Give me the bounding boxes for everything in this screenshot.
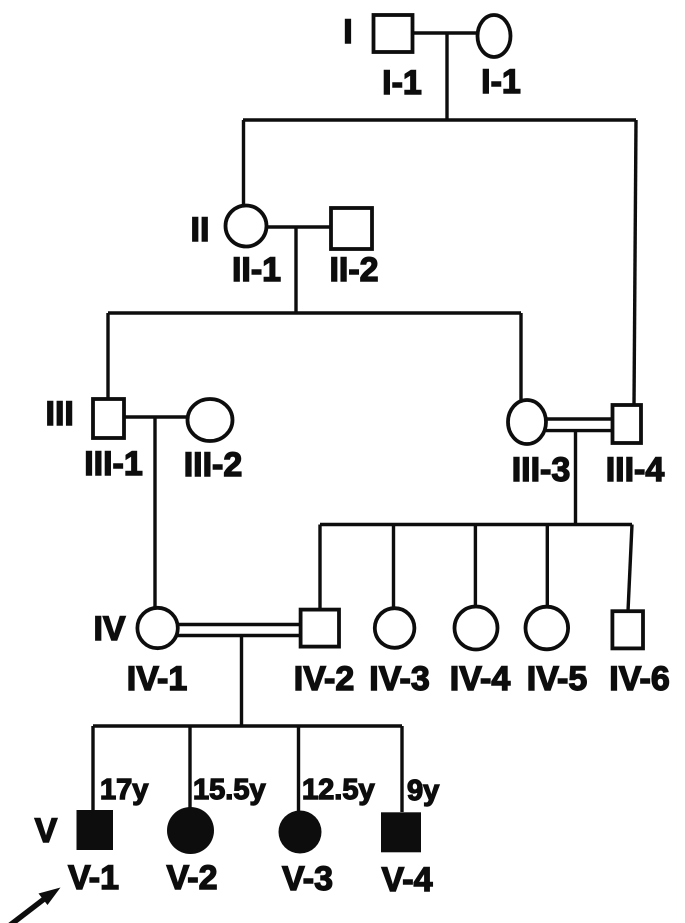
svg-text:III-2: III-2: [184, 446, 243, 484]
svg-text:V-3: V-3: [282, 860, 333, 898]
individual V-3 affected female filled circle: [279, 811, 322, 854]
wire drop to V-3: [297, 726, 300, 811]
wire sibship line generation V: [93, 724, 402, 727]
svg-text:V-2: V-2: [166, 859, 217, 897]
svg-text:IV-5: IV-5: [527, 660, 587, 698]
wire sibship line generation III: [108, 311, 521, 314]
svg-text:IV-3: IV-3: [369, 660, 429, 698]
svg-text:V: V: [35, 812, 58, 850]
wire consanguineous double line III lower: [546, 429, 613, 432]
wire descent from couple III right: [574, 431, 577, 525]
svg-text:9y: 9y: [407, 775, 439, 807]
wire drop to V-2: [188, 726, 191, 808]
wire consanguineous double line IV lower: [176, 634, 301, 637]
wire long drop to III-4: [634, 120, 636, 406]
individual IV-3 female circle: [375, 608, 415, 648]
svg-text:II-1: II-1: [232, 251, 281, 289]
individual IV-5 female circle: [526, 607, 569, 650]
wire descent from couple III left: [153, 417, 156, 608]
individual IV-6 male square: [612, 611, 643, 648]
svg-text:III-4: III-4: [606, 451, 665, 489]
svg-text:II-2: II-2: [329, 251, 378, 289]
wire drop to IV-2: [318, 525, 321, 610]
individual IV-1 female circle: [137, 608, 177, 648]
individual I-1 male square: [374, 15, 413, 52]
individual V-2 affected female filled circle: [167, 807, 214, 854]
wire drop to II-1: [242, 120, 245, 206]
svg-text:IV: IV: [93, 610, 125, 648]
svg-text:II: II: [191, 211, 210, 249]
wire descent from couple II: [294, 227, 297, 313]
wire sibship line generation II: [243, 118, 636, 121]
individual III-2 female circle: [188, 399, 233, 441]
wire couple line I: [412, 31, 478, 34]
wire sibship line generation IV: [320, 523, 632, 526]
individual III-4 male square: [613, 405, 642, 443]
individual III-3 female ellipse: [508, 400, 546, 444]
wire drop to IV-4: [474, 525, 477, 607]
individual II-2 male square: [331, 208, 372, 249]
wire drop to V-1: [91, 726, 94, 810]
svg-text:I: I: [343, 13, 352, 51]
svg-text:12.5y: 12.5y: [302, 774, 375, 806]
svg-text:III: III: [46, 395, 74, 433]
wire drop to IV-5: [546, 525, 549, 608]
svg-text:III-1: III-1: [84, 445, 143, 483]
svg-text:V-4: V-4: [381, 861, 432, 899]
wire couple line II: [266, 225, 331, 228]
individual IV-2 male square: [301, 610, 339, 647]
svg-text:I-1: I-1: [481, 63, 521, 101]
individual IV-4 female circle: [455, 607, 498, 650]
wire descent from couple I: [445, 33, 448, 120]
wire drop to V-4: [400, 726, 403, 812]
wire descent from couple IV: [240, 636, 243, 727]
wire couple line III left: [124, 415, 188, 418]
svg-text:15.5y: 15.5y: [193, 774, 266, 806]
wire drop to III-1: [106, 313, 109, 399]
wire drop to IV-3: [392, 525, 395, 609]
svg-text:IV-6: IV-6: [609, 660, 669, 698]
svg-text:V-1: V-1: [68, 859, 119, 897]
svg-text:III-3: III-3: [512, 451, 571, 489]
individual V-4 affected male filled square: [381, 812, 421, 852]
svg-text:IV-4: IV-4: [450, 660, 511, 698]
individual I-1 female ellipse: [478, 15, 511, 57]
individual V-1 affected male filled square: [77, 810, 114, 850]
proband arrow head: [39, 888, 61, 906]
wire consanguineous double line IV upper: [176, 623, 301, 626]
svg-text:IV-2: IV-2: [294, 660, 354, 698]
wire drop to IV-6: [628, 525, 632, 612]
svg-text:I-1: I-1: [382, 64, 422, 102]
wire consanguineous double line III upper: [546, 417, 613, 420]
individual II-1 female circle: [226, 206, 267, 247]
proband arrow shaft: [5, 896, 48, 923]
wire drop to III-3: [519, 313, 522, 400]
individual III-1 male square: [93, 399, 124, 438]
svg-text:17y: 17y: [100, 774, 148, 806]
svg-text:IV-1: IV-1: [127, 660, 187, 698]
